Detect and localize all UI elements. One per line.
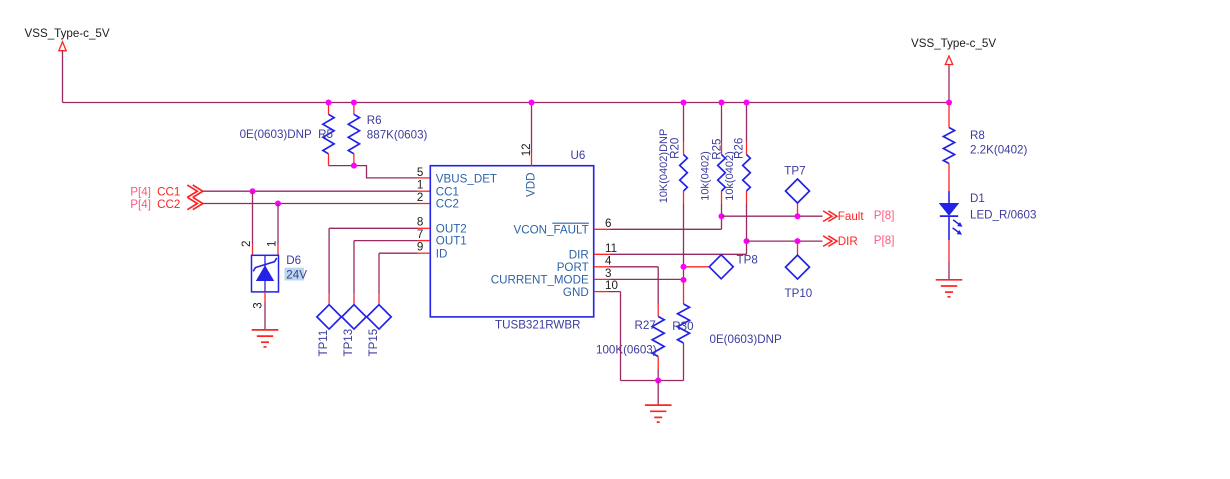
pin name VBUS_DET [436, 173, 497, 186]
diode D6 (TVS 24V) [252, 255, 279, 292]
svg-text:CURRENT_MODE: CURRENT_MODE [491, 274, 589, 287]
pin name DIR [569, 249, 589, 262]
svg-text:1: 1 [417, 179, 423, 192]
wire VDD pin 12 [531, 103, 533, 166]
pin 8 [417, 216, 423, 229]
svg-text:DIR: DIR [838, 235, 858, 248]
pin 10 [605, 279, 618, 292]
svg-text:TP11: TP11 [317, 330, 330, 357]
wire R5/R6 bottom to pin 5 [329, 166, 431, 178]
pin 7 [417, 228, 423, 241]
pin 3 [605, 267, 611, 280]
wire VCON_FAULT pin 6 [594, 216, 722, 229]
LED D1 [940, 191, 963, 240]
svg-text:CC2: CC2 [157, 198, 180, 211]
svg-text:TUSB321RWBR: TUSB321RWBR [495, 318, 580, 331]
wire ground stem [657, 381, 659, 405]
junction DIR/TP10 [795, 238, 801, 244]
svg-text:D1: D1 [970, 192, 985, 205]
pin name OUT2 [436, 222, 467, 235]
wire GND pin 10 [594, 292, 684, 381]
svg-text:GND: GND [563, 286, 589, 299]
svg-text:P[8]: P[8] [874, 209, 895, 222]
pin 2 of D6 [240, 241, 253, 247]
svg-text:6: 6 [605, 217, 611, 230]
wire OUT2 to TP11 [329, 228, 430, 304]
svg-text:3: 3 [605, 267, 611, 280]
junction bus/right stem [946, 100, 952, 106]
svg-text:P[8]: P[8] [874, 234, 895, 247]
wire PORT pin 4 [594, 267, 658, 304]
label R8 value 2.2K(0402) [970, 144, 1028, 157]
label R5 value 0E(0603)DNP [240, 128, 333, 141]
port Fault P[8] [823, 209, 894, 223]
testpoint TP8 [709, 255, 733, 279]
pin 12 [520, 143, 533, 156]
wire TP10 stub [797, 241, 799, 255]
svg-text:VDD: VDD [525, 173, 538, 197]
label R30 [672, 320, 693, 333]
power VSS_Type-c_5V (right) [911, 37, 996, 64]
svg-text:R20: R20 [669, 138, 682, 159]
label R20 value 10K(0402)DNP [658, 129, 670, 204]
wire CC1 net [203, 190, 430, 192]
wire D1 to ground [948, 240, 950, 279]
junction Fault/R25 [719, 213, 725, 219]
svg-text:11: 11 [605, 242, 617, 255]
svg-text:OUT1: OUT1 [436, 235, 467, 248]
pin name CURRENT_MODE [491, 274, 589, 287]
wire CC2 net [203, 203, 430, 205]
svg-text:1: 1 [266, 241, 279, 247]
testpoint TP7 [786, 179, 810, 203]
svg-text:R25: R25 [710, 139, 723, 160]
svg-text:0E(0603)DNP R5: 0E(0603)DNP R5 [240, 128, 333, 141]
wire CURRENT_MODE pin 3 [594, 278, 684, 280]
junction R6 bottom [351, 163, 357, 169]
label D6 [286, 254, 301, 267]
wire DIR pin 11 [594, 241, 747, 254]
svg-text:5: 5 [417, 166, 423, 179]
label R26 [733, 138, 746, 159]
pin 9 [417, 241, 423, 254]
ground below D6 [252, 330, 279, 347]
label TP11 [317, 330, 330, 357]
svg-text:0E(0603)DNP: 0E(0603)DNP [710, 333, 782, 346]
svg-text:24V: 24V [286, 268, 307, 281]
ground center [645, 405, 672, 422]
resistor R6 [348, 103, 359, 166]
label R20 [669, 138, 682, 159]
pin 4 [605, 254, 612, 267]
pin name VCON_FAULT [514, 223, 589, 236]
svg-text:VBUS_DET: VBUS_DET [436, 173, 497, 186]
junction R26 top [744, 100, 750, 106]
resistor R8 [943, 103, 954, 192]
pin name OUT1 [436, 235, 467, 248]
label D1 [970, 192, 985, 205]
svg-text:VSS_Type-c_5V: VSS_Type-c_5V [911, 37, 996, 50]
svg-text:U6: U6 [571, 149, 586, 162]
junction R30 top [681, 277, 687, 283]
label U6 [571, 149, 586, 162]
pin name VDD [525, 173, 538, 197]
pin name PORT [557, 261, 589, 274]
testpoint TP15 [367, 305, 391, 329]
svg-text:TP8: TP8 [737, 254, 758, 267]
svg-text:7: 7 [417, 228, 423, 241]
junction CC2/D6 [275, 201, 281, 207]
label D1 value LED_R/0603 [970, 209, 1036, 222]
label R30 value 0E(0603)DNP [710, 333, 782, 346]
wire top 5V bus [63, 102, 950, 104]
junction R25 top [719, 100, 725, 106]
wire D6 to ground [264, 292, 266, 330]
svg-text:R8: R8 [970, 129, 985, 142]
pin name GND [563, 286, 589, 299]
svg-text:VSS_Type-c_5V: VSS_Type-c_5V [25, 27, 110, 40]
svg-text:8: 8 [417, 216, 423, 229]
label R6 [367, 114, 382, 127]
svg-text:P[4]: P[4] [130, 198, 151, 211]
svg-text:LED_R/0603: LED_R/0603 [970, 209, 1036, 222]
power VSS_Type-c_5V (left) [25, 27, 110, 51]
pin 5 [417, 166, 423, 179]
junction R20 top [681, 100, 687, 106]
svg-text:2: 2 [417, 191, 423, 204]
wire right power stem [948, 65, 950, 103]
port DIR P[8] [823, 234, 894, 248]
svg-text:9: 9 [417, 241, 423, 254]
resistor R26 [743, 103, 751, 205]
wire CC2 to D6 pin 1 [277, 204, 279, 256]
label TP13 [342, 329, 355, 357]
junction VDD/bus [529, 100, 535, 106]
wire R26 bottom [746, 204, 748, 241]
wire R25 bottom [721, 204, 723, 216]
svg-text:TP10: TP10 [785, 287, 813, 300]
resistor R27 [652, 304, 664, 381]
junction TP8 [681, 264, 687, 270]
svg-text:CC1: CC1 [436, 185, 459, 198]
resistor R25 [718, 103, 726, 205]
junction ground node [655, 378, 661, 384]
wire Fault line [722, 215, 823, 217]
resistor R20 [680, 103, 688, 205]
wire R20 to R30 [683, 204, 685, 280]
label R25 [710, 139, 723, 160]
svg-text:TP13: TP13 [342, 329, 355, 357]
resistor R5 [323, 103, 334, 166]
junction Fault/TP7 [795, 213, 801, 219]
pin name ID [436, 247, 448, 260]
svg-text:PORT: PORT [557, 261, 589, 274]
pin 1 [417, 179, 423, 192]
svg-text:3: 3 [252, 302, 265, 308]
svg-text:10: 10 [605, 279, 618, 292]
svg-text:CC2: CC2 [436, 198, 459, 211]
port P[4] CC2 [130, 197, 203, 211]
wire CC1 to D6 pin 2 [252, 191, 254, 255]
svg-text:P[4]: P[4] [130, 185, 151, 198]
pin 3 of D6 [252, 302, 265, 308]
wire left power stem [62, 51, 64, 103]
label TP8 [737, 254, 758, 267]
label R26 value 10k(0402) [724, 151, 736, 201]
svg-text:R6: R6 [367, 114, 382, 127]
label TP7 [784, 165, 805, 178]
svg-text:4: 4 [605, 254, 612, 267]
label TP15 [367, 329, 380, 357]
svg-text:VCON_FAULT: VCON_FAULT [514, 224, 589, 237]
pin 1 of D6 [266, 241, 279, 247]
port P[4] CC1 [130, 185, 203, 198]
junction R6 top [351, 100, 357, 106]
resistor R30 [678, 280, 690, 381]
wire TP8 stub [684, 266, 710, 268]
label R27 value 100K(0603) [596, 344, 657, 357]
testpoint TP13 [342, 305, 366, 329]
svg-text:D6: D6 [286, 254, 301, 267]
label U6 part TUSB321RWBR [495, 318, 580, 331]
pin 11 [605, 242, 617, 255]
wire ID to TP15 [379, 253, 430, 305]
testpoint TP11 [317, 305, 341, 329]
svg-text:OUT2: OUT2 [436, 222, 467, 235]
junction CC1/D6 [250, 188, 256, 194]
junction DIR/R26 [744, 238, 750, 244]
label R27 [635, 319, 656, 332]
testpoint TP10 [786, 255, 810, 279]
label R6 value 887K(0603) [367, 128, 428, 141]
svg-text:2: 2 [240, 241, 253, 247]
svg-text:TP15: TP15 [367, 329, 380, 357]
svg-text:TP7: TP7 [784, 165, 805, 178]
pin 2 [417, 191, 423, 204]
label TP10 [785, 287, 813, 300]
svg-text:ID: ID [436, 247, 448, 260]
wire DIR line [747, 240, 823, 242]
svg-text:R26: R26 [733, 138, 746, 159]
wire TP7 stub [797, 203, 799, 216]
junction R5 top [326, 100, 332, 106]
svg-text:DIR: DIR [569, 249, 589, 262]
label D6 value 24V [285, 268, 308, 282]
pin name CC1 [436, 185, 459, 198]
wire OUT1 to TP13 [354, 241, 430, 305]
label R8 [970, 129, 985, 142]
op-amp U6 body (TUSB321RWBR) [430, 166, 593, 317]
label R25 value 10k(0402) [700, 151, 712, 201]
svg-text:CC1: CC1 [157, 185, 180, 198]
pin name CC2 [436, 198, 459, 211]
svg-text:R30: R30 [672, 320, 693, 333]
svg-text:100K(0603): 100K(0603) [596, 344, 657, 357]
svg-text:Fault: Fault [838, 210, 865, 223]
svg-text:2.2K(0402): 2.2K(0402) [970, 144, 1028, 157]
pin 6 [605, 217, 611, 230]
svg-text:R27: R27 [635, 319, 656, 332]
ground below D1 [936, 280, 963, 297]
svg-text:887K(0603): 887K(0603) [367, 128, 428, 141]
